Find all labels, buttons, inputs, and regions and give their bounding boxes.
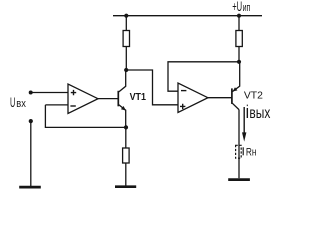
ground: middle ground bar <box>115 185 136 188</box>
node: Uvx lower terminal <box>29 119 33 123</box>
label: current mark beside Rn <box>242 147 244 155</box>
label: Ivyx current arrowhead <box>242 132 246 141</box>
transistor Q1 emitter lead with arrow <box>119 105 126 128</box>
svg-text:VT1: VT1 <box>130 92 147 103</box>
svg-text:вых: вых <box>249 105 270 122</box>
label: U2 minus input sign <box>181 90 186 92</box>
label: U2 plus input sign <box>180 104 185 109</box>
resistor Rn (dashed load box) <box>236 145 242 158</box>
wire: rail to R1 <box>125 16 127 31</box>
svg-text:VT2: VT2 <box>244 91 263 102</box>
ground: output ground bar <box>228 178 250 181</box>
wire: VT2 collector to load and ground <box>238 110 240 179</box>
node: junction dot rail / R1 <box>124 14 128 18</box>
node: VT1 emitter junction <box>124 125 128 129</box>
transistor Q2 base bar (VT2) <box>231 88 233 104</box>
op-amp U1 (left) <box>68 84 98 114</box>
transistor Q2 collector lead (down) <box>232 103 239 109</box>
wire: rail to R2 <box>238 16 240 31</box>
wire: VT1 collector node to right op-amp + input <box>126 70 178 105</box>
transistor Q1 collector lead <box>119 70 126 92</box>
wire: R2 to VT2 emitter node <box>238 47 240 62</box>
wire: Uvx terminal to U1 + input <box>31 92 68 94</box>
label: U1 plus input sign <box>71 90 76 95</box>
resistor R2 (emitter load of VT2) <box>236 31 242 47</box>
wire: U2 output to VT2 base <box>208 97 232 99</box>
svg-text:U: U <box>10 95 15 110</box>
resistor R3 (emitter resistor of VT1) <box>123 148 130 163</box>
transistor Q2 emitter arrowhead (points to bar, pnp-style) <box>233 87 238 91</box>
wire: R3 to ground <box>125 163 127 186</box>
wire: emitter node to R3 <box>125 127 127 148</box>
wire: U1 - input lead <box>45 104 68 106</box>
transistor Q1 base bar (VT1) <box>117 91 119 107</box>
op-amp U2 (right) <box>178 83 208 112</box>
transistor Q2 emitter lead (up) with arrow to base <box>232 62 239 92</box>
wire: feedback U1 - input to VT1 emitter node <box>45 105 126 128</box>
wire: feedback from VT2 emitter node to right op-amp - input <box>168 62 239 91</box>
wire: lower input terminal to ground <box>30 121 32 186</box>
svg-text:Rн: Rн <box>246 146 257 158</box>
label: U1 minus input sign <box>70 105 75 107</box>
node: Uvx upper terminal <box>29 91 33 95</box>
node: VT1 collector junction <box>124 68 128 72</box>
wire: +Uip power rail <box>113 15 262 17</box>
resistor R1 (collector load of VT1) <box>123 31 129 47</box>
transistor Q1 emitter arrowhead <box>121 106 126 111</box>
ground: input ground bar <box>19 186 41 189</box>
svg-text:вх: вх <box>16 98 26 110</box>
svg-text:ип: ип <box>243 2 251 14</box>
wire: U1 output to VT1 base <box>98 98 118 100</box>
svg-text:+U: +U <box>232 0 242 14</box>
node: VT2 emitter junction <box>237 60 241 64</box>
label: Ivyx current arrow shaft <box>243 107 245 133</box>
node: junction dot rail / R2 <box>237 14 241 18</box>
wire: R1 to VT1 collector node <box>125 47 127 71</box>
